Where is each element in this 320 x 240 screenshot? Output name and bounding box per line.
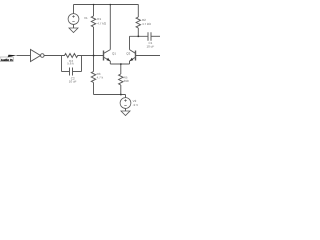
svg-text:Audio In: Audio In	[1, 58, 13, 62]
wire inverter out	[44, 55, 61, 57]
node junction at R5 / negative rail	[120, 94, 122, 96]
svg-text:-9 V: -9 V	[133, 103, 139, 107]
wire R1 top lead	[93, 5, 95, 17]
svg-text:Q2: Q2	[126, 52, 130, 56]
wire R1 bottom lead to base node	[93, 27, 95, 56]
resistor R2	[136, 17, 140, 28]
resistor R4	[62, 54, 82, 58]
transistor Q1	[103, 51, 105, 61]
wire Q1 collector line	[109, 5, 111, 50]
inverter A1	[31, 50, 41, 62]
resistor R1	[91, 16, 95, 27]
resistor R3	[91, 72, 95, 83]
wire V1 top stem	[73, 5, 75, 14]
capacitor C2	[70, 68, 73, 76]
wire R2 bottom lead	[137, 28, 139, 36]
svg-text:390: 390	[124, 79, 129, 83]
input port arrow	[8, 55, 17, 58]
svg-text:10 uF: 10 uF	[69, 79, 77, 83]
wire RC bottom right	[73, 71, 82, 73]
wire collector node horizontal	[130, 35, 148, 37]
wire RC right branch	[81, 56, 83, 72]
voltage source V2	[120, 98, 131, 109]
svg-text:V1: V1	[84, 16, 88, 20]
wire R5 bottom lead	[120, 85, 122, 95]
node junction at top rail / R1	[93, 4, 94, 5]
ground below V1	[69, 28, 78, 33]
wire R3 bottom lead	[93, 83, 95, 95]
wire RC bottom left	[62, 71, 70, 73]
Q1 emitter arrow	[106, 58, 110, 62]
svg-text:R1: R1	[97, 17, 101, 21]
svg-text:5.6 k: 5.6 k	[67, 62, 74, 66]
wire Q2 collector line	[129, 36, 131, 49]
input port label box	[0, 57, 13, 62]
wire V2 top stem	[125, 95, 127, 98]
Q2 emitter arrow	[130, 58, 134, 62]
capacitor C1	[148, 32, 151, 41]
node junction at Q1 base / R1-R3	[93, 55, 95, 57]
wire C1 output	[151, 35, 160, 37]
voltage source V1	[68, 14, 79, 25]
wire bottom rail	[94, 94, 126, 96]
wire R2 top lead	[137, 5, 139, 18]
wire base node down to R3	[93, 56, 95, 72]
resistor R5	[119, 74, 123, 85]
svg-text:4.7 kΩ: 4.7 kΩ	[97, 22, 107, 26]
wire emitter tap	[120, 64, 122, 74]
wire emitter rail	[110, 63, 129, 65]
svg-text:Q1: Q1	[112, 52, 116, 56]
ground below V2	[121, 111, 130, 116]
node junction at top rail / Q1 collector	[110, 4, 111, 5]
svg-text:4.7 k: 4.7 k	[97, 76, 104, 80]
node junction at R2 / Q2 collector / C1	[138, 36, 140, 38]
wire top rail	[74, 4, 139, 6]
svg-text:10 uF: 10 uF	[147, 44, 155, 48]
svg-text:4.7 kΩ: 4.7 kΩ	[142, 22, 152, 26]
wire Q2 base	[136, 55, 160, 57]
wire input to inverter	[17, 55, 31, 57]
transistor Q2	[135, 51, 137, 61]
node junction at emitter tail	[120, 63, 122, 65]
wire base wire to Q1	[82, 55, 104, 57]
wire V1 bottom stem	[73, 25, 75, 29]
wire RC left branch	[61, 56, 63, 72]
wire V2 bottom stem	[125, 109, 127, 112]
